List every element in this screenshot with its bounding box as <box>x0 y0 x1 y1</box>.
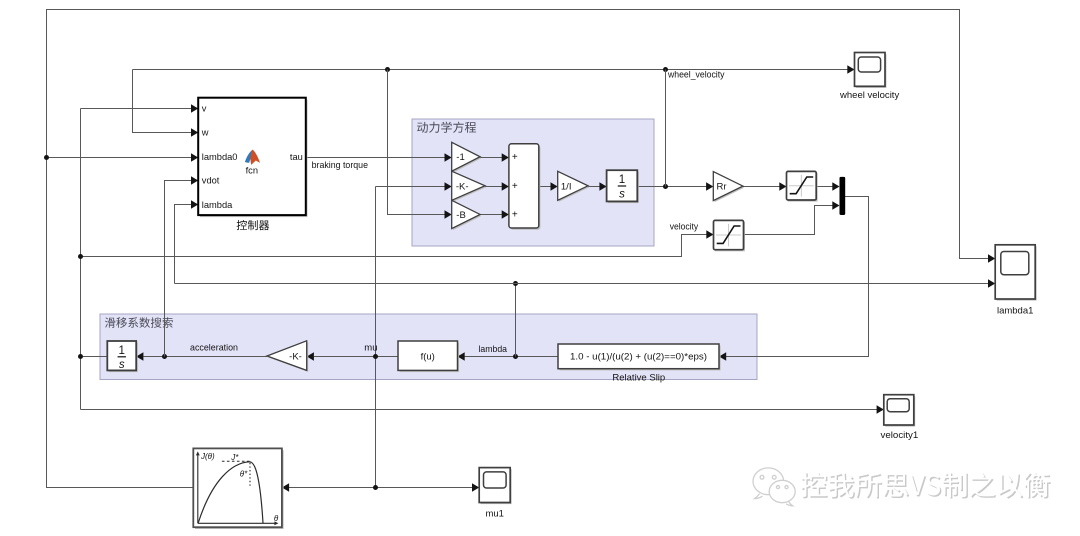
wire sum to 1/I <box>539 186 551 188</box>
saturation block SAT1 <box>787 171 818 201</box>
wire vdot into controller <box>165 181 192 357</box>
scope lambda1 <box>995 245 1036 301</box>
node junction lambda <box>513 354 518 359</box>
svg-text:mu: mu <box>364 343 377 354</box>
scope wheel velocity <box>855 53 887 88</box>
mux block <box>840 177 846 215</box>
watermark text 控我所思VS制之以衡 <box>802 473 1050 498</box>
svg-text:braking torque: braking torque <box>312 160 368 171</box>
wire Rr to saturation1 <box>743 186 780 188</box>
wire mu vertical trunk <box>375 187 377 488</box>
wire f(u) to -K- slip gain <box>314 356 398 358</box>
wire lambda into controller <box>175 205 192 284</box>
svg-text:-K-: -K- <box>289 352 302 363</box>
gain G2 (-K-) <box>452 171 487 202</box>
wire braking torque (tau to -1 gain) <box>306 157 445 159</box>
wire to velocity1 scope <box>81 409 878 411</box>
wire saturation2 to mux port2 <box>744 206 833 235</box>
svg-text:1.0 - u(1)/(u(2) + (u(2)==0)*e: 1.0 - u(1)/(u(2) + (u(2)==0)*eps) <box>570 352 707 362</box>
svg-text:acceleration: acceleration <box>190 343 238 354</box>
MATLAB fcn logo inside controller <box>245 150 260 176</box>
gain G1 (-1) <box>452 142 482 172</box>
svg-text:1: 1 <box>119 345 125 357</box>
gain G3 (-B) <box>452 200 482 230</box>
scope mu1 <box>479 468 511 505</box>
svg-text:1/I: 1/I <box>561 181 572 192</box>
svg-text:s: s <box>119 359 125 371</box>
wire lambda0 branch into controller <box>47 157 192 159</box>
wire wheel_velocity riser <box>665 70 667 187</box>
svg-text:mu1: mu1 <box>485 509 503 520</box>
wire wheel_velocity top run <box>133 69 848 71</box>
node junction acceleration/vdot <box>162 354 167 359</box>
svg-text:-B: -B <box>456 210 466 221</box>
wire saturation1 to mux port1 <box>816 186 833 188</box>
integrator dynamics (1/s) <box>607 170 639 203</box>
Relative Slip block <box>558 344 721 370</box>
saturation block SAT2 <box>714 220 745 251</box>
scope velocity1 <box>884 395 915 427</box>
svg-text:lambda0: lambda0 <box>202 152 238 162</box>
wire gain -1 to sum <box>480 157 502 159</box>
node junction mu bottom <box>373 485 378 490</box>
svg-text:θ*: θ* <box>240 469 248 478</box>
svg-text:lambda: lambda <box>479 344 508 355</box>
svg-text:f(u): f(u) <box>421 351 435 362</box>
node junction velocity/integrator <box>78 354 83 359</box>
f(u) block (Fcn) <box>398 341 459 372</box>
node junction wheel_velocity main <box>663 67 668 72</box>
sum block (Add) <box>509 144 541 230</box>
wire mux output down to Relative Slip <box>726 197 869 357</box>
wire outer loop: J-block output around left/top to lambda1 port1 <box>47 10 989 488</box>
svg-text:wheel velocity: wheel velocity <box>839 90 899 101</box>
label 控制器 under controller <box>237 220 270 230</box>
wire v input <box>81 108 192 110</box>
wire lambda riser <box>515 284 517 357</box>
svg-text:vdot: vdot <box>202 175 220 185</box>
node junction wheel speed out <box>663 184 668 189</box>
svg-text:+: + <box>512 152 518 163</box>
node junction lambda upper <box>513 281 518 286</box>
svg-text:J(θ): J(θ) <box>200 452 215 461</box>
wire mu bottom run to J-block and mu1 <box>289 487 472 489</box>
gain G6 (-K-) left-pointing <box>267 341 308 372</box>
area 滑移系数搜索 (slip coefficient search region) <box>100 314 757 380</box>
watermark wechat logo <box>753 468 795 506</box>
svg-text:s: s <box>619 188 625 200</box>
svg-text:1: 1 <box>619 174 625 186</box>
wire Relative Slip to f(u) <box>465 356 559 358</box>
wire integrator to Rr <box>637 186 706 188</box>
svg-text:+: + <box>512 181 518 192</box>
svg-text:w: w <box>201 127 209 137</box>
svg-text:θ: θ <box>274 514 279 523</box>
wire lambda run to lambda1 scope <box>175 283 989 285</box>
svg-text:Rr: Rr <box>717 182 727 193</box>
wire velocity to saturation2 <box>81 235 707 257</box>
svg-text:lambda: lambda <box>202 200 233 210</box>
wire gain -K- to sum <box>485 186 502 188</box>
svg-text:fcn: fcn <box>246 166 258 176</box>
wire wheel_velocity down to -B gain <box>388 70 445 215</box>
node junction lambda0 <box>44 155 49 160</box>
gain G4 (1/I) <box>558 171 590 202</box>
svg-text:tau: tau <box>290 152 303 162</box>
svg-text:velocity1: velocity1 <box>881 430 919 441</box>
svg-text:Relative Slip: Relative Slip <box>612 373 665 384</box>
svg-text:J*: J* <box>230 453 239 462</box>
node junction wheel_velocity/-B <box>385 67 390 72</box>
wire gain -B to sum <box>480 214 502 216</box>
svg-text:wheel_velocity: wheel_velocity <box>667 69 725 80</box>
integrator slip search (1/s) <box>107 341 137 372</box>
gain G5 (Rr) <box>713 172 744 203</box>
wire -K- slip to integrator <box>143 356 267 358</box>
controller block U1 (MATLAB function 控制器) <box>198 98 307 217</box>
svg-text:v: v <box>202 103 207 113</box>
svg-text:velocity: velocity <box>670 222 699 233</box>
svg-text:+: + <box>512 210 518 221</box>
wire velocity trunk vertical <box>80 109 82 410</box>
svg-text:-1: -1 <box>456 152 464 163</box>
J(theta) curve display block <box>193 448 283 529</box>
wire 1/I to integrator <box>588 186 600 188</box>
svg-text:-K-: -K- <box>456 181 469 192</box>
wire slip integrator output <box>81 356 108 358</box>
svg-text:lambda1: lambda1 <box>997 305 1033 316</box>
area 动力学方程 (dynamics equations region) <box>412 119 654 246</box>
wire mu to -K- dynamics gain <box>376 186 445 188</box>
wire w input (wheel velocity) <box>133 70 192 133</box>
node junction velocity/sat2 <box>78 254 83 259</box>
node junction mu <box>373 354 378 359</box>
